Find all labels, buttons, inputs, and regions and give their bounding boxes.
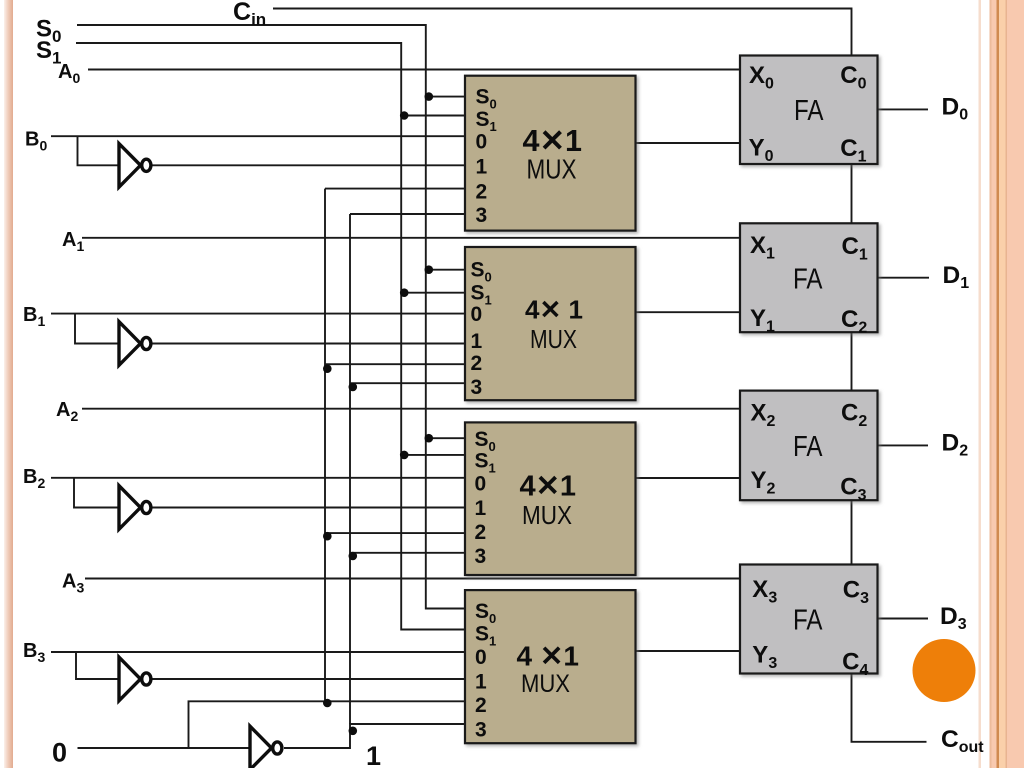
svg-text:0: 0	[476, 130, 488, 153]
svg-text:MUX: MUX	[521, 671, 570, 698]
svg-text:MUX: MUX	[522, 502, 572, 530]
wire D3 out	[878, 618, 929, 620]
inverter B1'	[119, 322, 151, 366]
svg-text:1: 1	[366, 741, 381, 768]
wire carry C3 FA2 to FA3	[851, 500, 853, 564]
svg-text:0: 0	[471, 303, 483, 326]
wire MUX1 out to FA1 Y1	[636, 311, 741, 313]
svg-text:MUX: MUX	[530, 324, 577, 354]
svg-text:1: 1	[475, 497, 487, 520]
MUX block U1 (4x1 MUX top)	[465, 76, 636, 231]
wire Cin horizontal+down to FA0 C0	[273, 9, 852, 56]
MUX block U2	[465, 247, 636, 400]
wire A1 to FA1 X1	[82, 237, 740, 239]
svg-text:4✕ 1: 4✕ 1	[525, 295, 583, 325]
svg-text:3: 3	[471, 376, 483, 399]
wire B1' inverter out to MUX1 pin1	[152, 343, 465, 345]
wire const1 vertical bus	[349, 214, 351, 724]
right border stripes	[979, 0, 982, 768]
wire const0 riser and MUX3 pin2 feed	[189, 701, 466, 748]
wire B0 to MUX0 pin0	[51, 135, 465, 137]
junction dots S1 bus	[400, 111, 409, 459]
wire S0 stub MUX2	[426, 437, 465, 439]
MUX block U3	[465, 422, 636, 575]
wire A2 to FA2 X2	[82, 408, 740, 410]
wire const1 stub MUX2 pin3	[350, 552, 465, 554]
wire B2 branch to inverter	[74, 478, 119, 508]
wire B2' inverter out to MUX2 pin1	[152, 507, 465, 509]
wire B1 branch to inverter	[75, 314, 119, 344]
wire B3 to MUX3 pin0	[51, 651, 465, 653]
svg-text:1: 1	[475, 670, 487, 693]
junction dots const0 bus	[323, 364, 332, 707]
wire const1 from bottom inverter out, riser, MUX3 pin3 feed	[284, 724, 465, 748]
svg-text:0: 0	[475, 646, 487, 669]
wire B2 to MUX2 pin0	[51, 477, 465, 479]
svg-text:FA: FA	[793, 263, 823, 295]
wire MUX0 out to FA0 Y0	[636, 142, 741, 144]
wire S0 stub MUX0	[426, 96, 465, 98]
svg-text:FA: FA	[793, 605, 823, 637]
inverter B3'	[119, 657, 151, 701]
MUX block U4	[465, 590, 636, 743]
inverter B0'	[119, 144, 151, 188]
FA block FA1	[740, 223, 878, 336]
svg-text:2: 2	[475, 694, 487, 717]
svg-text:2: 2	[475, 521, 487, 544]
svg-text:0: 0	[52, 738, 67, 768]
wire S0 stub MUX1	[426, 269, 465, 271]
wire const0 vertical bus	[324, 189, 326, 702]
junction dots const1 bus	[349, 383, 358, 735]
wire const0 stub MUX1 pin2	[325, 363, 465, 365]
FA block FA3	[740, 565, 878, 680]
FA block FA2	[740, 391, 878, 505]
decorative orange circle	[913, 639, 976, 702]
svg-text:MUX: MUX	[527, 154, 577, 185]
svg-text:1: 1	[471, 330, 483, 353]
svg-text:3: 3	[476, 204, 488, 227]
svg-text:0: 0	[475, 472, 487, 495]
wire B3 branch to inverter	[76, 652, 119, 679]
wire const0 source from label to bottom inverter input	[78, 747, 251, 749]
inverter B2'	[119, 486, 151, 530]
svg-text:4✕1: 4✕1	[520, 470, 577, 502]
wire MUX3 out to FA3 Y3	[636, 650, 741, 652]
wire MUX2 out to FA2 Y2	[636, 477, 741, 479]
junction dots S0 bus	[425, 92, 434, 442]
wire B1 to MUX1 pin0	[51, 313, 465, 315]
wire A3 to FA3 X3	[85, 578, 740, 580]
wire S1 horizontal + S1 bus vertical + elbow into MUX3 S1	[76, 43, 465, 630]
wire carry C1 FA0 to FA1	[851, 164, 853, 223]
wire const1 stub MUX1 pin3	[350, 382, 465, 384]
svg-text:3: 3	[475, 718, 487, 741]
wire const0 stub MUX2 pin2	[325, 532, 465, 534]
wire S1 stub MUX1	[401, 292, 465, 294]
wire S1 stub MUX0	[401, 115, 465, 117]
svg-text:3: 3	[475, 545, 487, 568]
svg-text:4 ✕1: 4 ✕1	[517, 640, 579, 671]
wire const0 elbow MUX0 pin2	[325, 188, 465, 190]
wire D1 out	[878, 277, 930, 279]
svg-text:1: 1	[476, 155, 488, 178]
wire S0 horizontal + S0 bus vertical + elbow into MUX3 S0	[77, 25, 465, 609]
wire D0 out	[878, 108, 929, 110]
svg-text:FA: FA	[793, 431, 823, 463]
wire C4 to Cout	[852, 674, 927, 742]
svg-text:2: 2	[471, 352, 483, 375]
FA block FA0	[740, 56, 878, 166]
inverter constant 0 to 1	[250, 726, 282, 768]
wire D2 out	[878, 444, 929, 446]
wire A0 to FA0 X0	[88, 69, 740, 71]
svg-text:FA: FA	[794, 95, 824, 127]
wire S1 stub MUX2	[401, 454, 465, 456]
wire const1 elbow MUX0 pin3	[350, 213, 465, 215]
wire B3' inverter out to MUX3 pin1	[152, 678, 465, 680]
svg-text:2: 2	[476, 180, 488, 203]
wire B0' inverter out to MUX0 pin1	[152, 164, 465, 166]
wire B0 branch to inverter	[78, 136, 120, 165]
wire carry C2 FA1 to FA2	[851, 332, 853, 390]
